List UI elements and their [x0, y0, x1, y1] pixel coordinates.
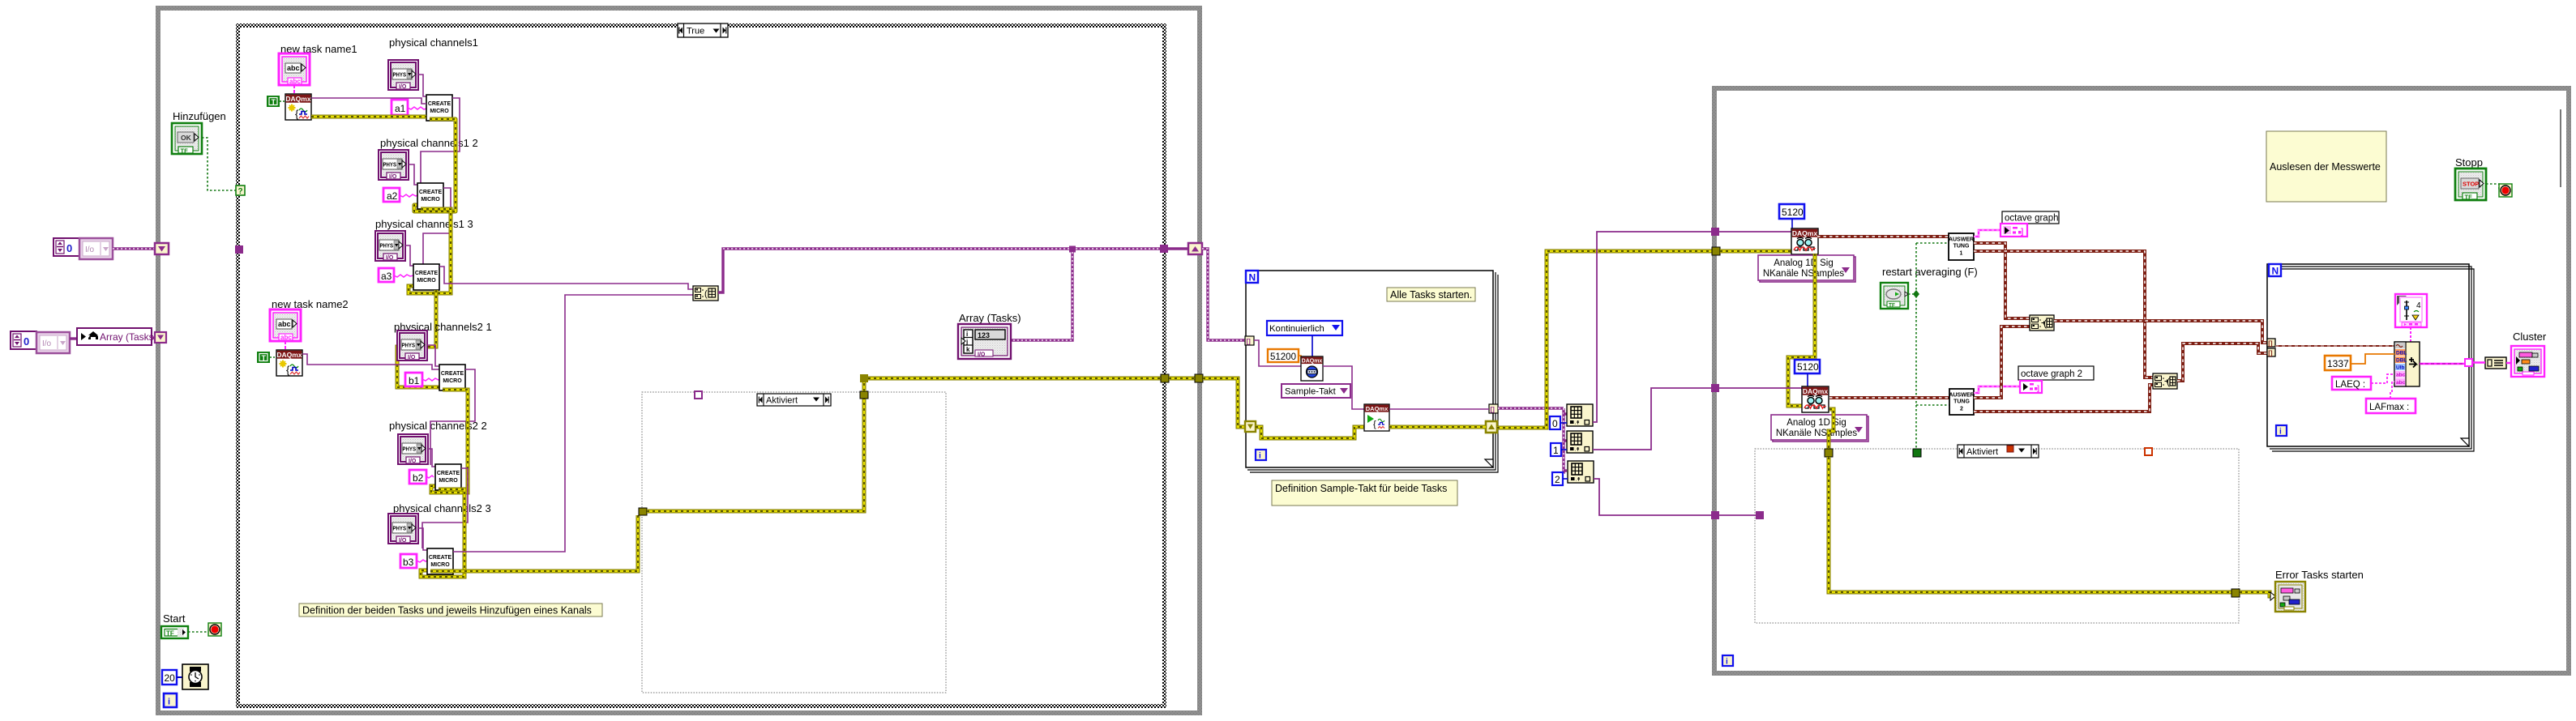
svg-text:physical channels1 3: physical channels1 3 [375, 218, 473, 230]
wire pink auswertung1 to octave graph [1974, 230, 2000, 237]
svg-text:i: i [2279, 428, 2282, 437]
wire task index array 3 to WL2 tunnel [1594, 479, 1712, 515]
wire task N1 tunnel to timing VI [1254, 340, 1303, 366]
wire waveform auswertung2 out2 to build array BA2 [1974, 385, 2153, 412]
numeric constant 51200 [1268, 349, 1299, 362]
string control new task name2 [270, 309, 301, 341]
create micro VI a3 [413, 264, 439, 290]
wire case tunnel to right shift register [1168, 247, 1189, 250]
svg-text:DBL: DBL [2396, 358, 2407, 364]
wire start VI error out to N1 SR right [1389, 425, 1486, 429]
svg-text:i: i [1259, 452, 1261, 461]
label Definition Sample-Takt [1272, 480, 1457, 506]
N1 tunnel task out [1489, 404, 1498, 413]
wire LAFmax to bundle [2390, 382, 2394, 399]
wire error b3 to disable structure tunnel [430, 515, 638, 571]
svg-text:{: { [1373, 420, 1376, 429]
error tunnel on left disable structure top border [860, 391, 868, 399]
svg-text:]: ] [2021, 228, 2023, 237]
PHYS I/O control b1 [397, 331, 427, 360]
window edge artifact line top right [2560, 109, 2561, 187]
N1 iteration terminal i [1256, 450, 1266, 461]
wire task1 to read1 [1719, 231, 1791, 233]
wire cluster bundle to N2 tunnel [2420, 363, 2466, 365]
wait (ms) timer [182, 664, 208, 689]
string constant LAFmax : [2366, 399, 2416, 413]
Error Tasks starten indicator [2275, 582, 2305, 612]
wire error to indicator Error Tasks starten [2240, 592, 2275, 596]
DAQmx timing VI [1301, 356, 1323, 381]
WL1 iteration terminal i [164, 693, 177, 707]
wire task N1 out to index arrays [1498, 407, 1564, 409]
DAQmx create task VI 2 [276, 350, 302, 376]
wire to Cluster indicator [2472, 361, 2511, 364]
svg-text:DBL: DBL [2396, 351, 2407, 356]
svg-text:51200: 51200 [1270, 352, 1296, 362]
DAQmx create task VI 1 [285, 94, 311, 120]
I/O combo control (lower left pair) [36, 332, 70, 353]
svg-text:0: 0 [1552, 418, 1558, 429]
svg-text:Array (Tasks): Array (Tasks) [959, 312, 1021, 324]
svg-text:a3: a3 [381, 271, 392, 282]
svg-text:k: k [966, 346, 970, 353]
svg-text:T: T [272, 98, 276, 106]
svg-text:5120: 5120 [1782, 207, 1804, 218]
svg-text:Analog 1D Sig: Analog 1D Sig [1774, 258, 1834, 268]
numeric constant 0 (index) [1550, 416, 1560, 429]
wire error a1 to a2 [414, 119, 456, 211]
error tunnel on left disable structure border [639, 508, 647, 515]
wire task3 inside WL2 to disable tunnel [1719, 514, 1756, 516]
numeric constant 0 (upper left pair) [53, 238, 79, 256]
svg-text:j: j [965, 339, 968, 346]
case tunnel purple right [1160, 245, 1168, 253]
label octave graph [2002, 211, 2059, 224]
string constant b1 [405, 373, 422, 386]
wire waveform auswertung1 out1 to build array BA1 [1974, 243, 2030, 318]
wire task index array 1 to WL2 tunnel [1593, 232, 1712, 422]
svg-text:physical channels2 3: physical channels2 3 [393, 502, 491, 514]
svg-text:Array (Tasks): Array (Tasks) [100, 331, 157, 343]
numeric constant 1337 [2325, 356, 2351, 370]
N2 auto-index tunnel 1 [2267, 339, 2275, 348]
wire b1 to create micro b1 [422, 378, 440, 381]
wire restart averaging boolean net [1908, 243, 1949, 450]
N2 iteration terminal i [2276, 425, 2287, 437]
wire task b3 to build array (up the spine) [453, 295, 693, 552]
create micro VI a2 [417, 183, 443, 209]
tunnel square on right disable border [2145, 448, 2152, 455]
case structure border (inside WL1) [238, 26, 1165, 706]
svg-text:[]: [] [2268, 350, 2273, 357]
build array BA1 [2030, 315, 2054, 331]
svg-text:TF: TF [1889, 303, 1895, 309]
svg-text:Definition der beiden Tasks un: Definition der beiden Tasks und jeweils … [302, 605, 592, 616]
wire timing VI to start VI [1323, 366, 1364, 409]
wire 5120 to read1 [1791, 219, 1793, 229]
WL2 tunnel task 3 [1711, 511, 1719, 519]
wire 5120 to read2 [1807, 373, 1808, 386]
wire error read1 to read2 [1788, 254, 1815, 406]
svg-text:b1: b1 [409, 375, 420, 386]
wire waveform read1 to auswertung1 [1817, 235, 1949, 238]
string constant a3 [379, 268, 394, 282]
svg-text:TUNG: TUNG [1953, 399, 1970, 405]
create micro VI a1 [426, 95, 452, 121]
svg-text:Alle Tasks starten.: Alle Tasks starten. [1390, 289, 1472, 301]
wire error inside disable structure [647, 399, 864, 511]
case selector label "True" [678, 23, 728, 37]
svg-text:Kontinuierlich: Kontinuierlich [1269, 324, 1324, 334]
label octave graph 2 [2018, 366, 2094, 380]
svg-text:TUNG: TUNG [1953, 244, 1970, 250]
wire PHYS a2 to create micro a2 [409, 164, 417, 185]
PHYS I/O control a2 [379, 150, 409, 180]
PHYS I/O control b3 [388, 514, 418, 544]
numeric constant 2 (index) [1552, 472, 1563, 485]
svg-text:Aktiviert: Aktiviert [766, 396, 798, 406]
wire error WL1 to N1 shift register [1203, 378, 1246, 427]
label Definition der beiden Tasks [299, 604, 602, 616]
WL1 conditional terminal (red LED) [208, 623, 221, 636]
svg-text:Hinzufügen: Hinzufügen [173, 110, 226, 122]
octave graph indicator [2000, 224, 2027, 237]
indexing tunnel glyph [2485, 357, 2506, 369]
svg-text:UIb: UIb [2396, 365, 2405, 371]
wire Stopp to WL2 conditional terminal [2486, 184, 2499, 190]
DAQmx read VI 2 [1802, 386, 1829, 412]
diagram disable structure (right, dotted) [1755, 449, 2239, 623]
wire task a3 to build array (long) [439, 267, 693, 289]
string constant b3 [400, 554, 417, 568]
index array node 1 [1567, 404, 1593, 426]
svg-text:2: 2 [1960, 407, 1963, 412]
svg-text:N: N [2272, 266, 2279, 277]
ring constant Analog 1D Sig (2) [1771, 415, 1868, 442]
disable selector "Aktiviert" (right) [1958, 445, 2039, 458]
svg-text:1: 1 [1553, 445, 1559, 456]
svg-text:4: 4 [2416, 301, 2421, 310]
svg-text:octave graph 2: octave graph 2 [2021, 369, 2082, 379]
while loop WL2 (right) border [1714, 88, 2569, 673]
svg-text:LAFmax :: LAFmax : [2369, 403, 2409, 412]
svg-text:Start: Start [163, 612, 186, 625]
Cluster indicator [2511, 346, 2544, 377]
boolean Start control [161, 626, 188, 638]
svg-text:20: 20 [165, 672, 176, 684]
svg-text:Sample-Takt: Sample-Takt [1285, 387, 1337, 397]
wire boolean OK to case selector terminal [202, 138, 236, 190]
local variable Array (Tasks) [77, 328, 157, 345]
wire error disable structure to case tunnel [864, 378, 1162, 391]
wire PHYS b1 to create micro b1 [427, 345, 439, 366]
wire 0 to index array 1 [1560, 422, 1567, 424]
numeric constant 5120 (read2) [1795, 360, 1820, 373]
svg-text:TF: TF [181, 147, 189, 155]
svg-text:I/O: I/O [978, 352, 986, 358]
numeric constant 20 [162, 670, 177, 685]
svg-text:Cluster: Cluster [2513, 331, 2547, 343]
svg-text:?: ? [238, 187, 243, 196]
wire string to DAQmx create task 2 [285, 341, 286, 350]
svg-text:2: 2 [1555, 474, 1560, 485]
input arrow Error Tasks starten [2270, 592, 2275, 600]
wire task from combo to WL1 left shift register [113, 247, 155, 250]
wire LAEQ to bundle [2371, 374, 2394, 383]
wire local variable to WL1 border terminal [152, 336, 156, 339]
WL1 border error tunnel [1195, 374, 1203, 382]
svg-text:Definition Sample-Takt für bei: Definition Sample-Takt für beide Tasks [1275, 483, 1447, 494]
wire a1 to create micro a1 [408, 107, 426, 109]
N2 count terminal [2269, 264, 2281, 277]
wire error read2 down into disable structure [1829, 409, 1834, 449]
string constant a2 [383, 188, 400, 202]
N1 shift register error right [1486, 421, 1497, 433]
svg-text:1: 1 [1960, 251, 1963, 257]
svg-text:abc: abc [2396, 380, 2406, 386]
auswertung VI 1 [1949, 233, 1974, 260]
green tunnel on right disable top border [1913, 449, 1921, 457]
svg-text:[]: [] [1247, 338, 1252, 345]
svg-text:Aktiviert: Aktiviert [1966, 447, 1998, 457]
string constant b2 [409, 470, 426, 484]
wire waveform auswertung1 out2 to build array BA2 [1974, 251, 2153, 378]
svg-text:a1: a1 [395, 103, 406, 114]
wire task b1 to b2 [430, 369, 475, 465]
error tunnel on right disable top border [1825, 449, 1833, 457]
wire task index array 2 to WL2 tunnel [1593, 388, 1712, 450]
svg-text:i: i [1726, 658, 1728, 667]
svg-text:AUSWER: AUSWER [1949, 237, 1974, 243]
wire task b2 to b3 [422, 468, 468, 548]
WL2 iteration terminal i [1722, 655, 1733, 667]
svg-text:DAQmx: DAQmx [1302, 359, 1323, 365]
wire a3 to create micro a3 [394, 275, 413, 277]
PHYS I/O control a3 [375, 231, 405, 261]
svg-text:[]: [] [2268, 340, 2273, 348]
N1 shift register error left [1245, 421, 1256, 432]
wire pink filter to bundle [2410, 327, 2411, 342]
PHYS I/O control b2 [398, 434, 428, 464]
error tunnel on right disable right border [2232, 589, 2240, 597]
svg-text:(: ( [704, 289, 708, 299]
for loop N2 (right) stacked frames [2267, 264, 2474, 451]
wire waveform BA1 to N2 tunnel 1 [2054, 321, 2267, 343]
while loop WL1 (left) border [158, 8, 1200, 713]
svg-text:Auslesen der Messwerte: Auslesen der Messwerte [2270, 161, 2381, 173]
svg-text:Stopp: Stopp [2455, 156, 2483, 169]
svg-text:i: i [966, 331, 968, 338]
junction on task array wire [1069, 246, 1076, 253]
wire 2 to index array 3 [1563, 478, 1568, 480]
wire T to create task 2 [270, 356, 276, 358]
wire error N1 SR to start VI [1256, 427, 1364, 438]
wire waveform auswertung2 out1 to build array BA1 [1974, 326, 2030, 398]
svg-text:i: i [168, 698, 170, 707]
wire task a1 to a2 [421, 98, 460, 184]
disable selector "Aktiviert" (left) [757, 394, 831, 406]
boolean control restart averaging [1881, 283, 1908, 309]
wire combo to local variable [70, 337, 77, 339]
label Auslesen der Messwerte (free label) [2266, 131, 2386, 202]
numeric constant 1 (index) [1551, 443, 1561, 456]
wire branch to Array (Tasks) indicator [1011, 252, 1072, 340]
svg-text:a2: a2 [387, 190, 398, 202]
wire error a2 to a3 [409, 209, 451, 293]
wire error N1 out up to WL2 [1497, 251, 1715, 428]
svg-text:1337: 1337 [2327, 358, 2349, 369]
wire string to DAQmx create task 1 [293, 85, 295, 94]
ring constant Sample-Takt [1282, 384, 1350, 398]
wire waveform inside N2 to bundle [2275, 345, 2394, 347]
wire waveform read2 to auswertung2 [1829, 396, 1949, 399]
svg-text:DAQmx: DAQmx [1366, 405, 1389, 412]
svg-text:physical channels1: physical channels1 [389, 36, 478, 49]
wire error a3 down to b1 [397, 290, 439, 387]
wire PHYS b2 to create micro b2 [428, 449, 435, 467]
I/O combo control (upper left pair) [79, 238, 113, 259]
diagram disable structure (left, dotted) [642, 392, 946, 693]
wire error create task1 to create micro a1 [311, 115, 426, 119]
index array node 2 [1567, 431, 1593, 453]
case tunnel error right [1161, 374, 1169, 382]
filter express VI icon (4) [2395, 294, 2427, 327]
numeric constant 5120 (read1) [1779, 204, 1804, 219]
N2 auto-index tunnel 2 [2267, 348, 2275, 357]
wire start VI task out to N1 tunnel [1389, 408, 1489, 410]
wire PHYS b3 to create micro b3 [418, 528, 427, 550]
shift register left terminal 2 (WL1) [155, 332, 166, 343]
N2 tunnel cluster out [2465, 359, 2472, 366]
case selector terminal ? [236, 186, 245, 196]
svg-text:123: 123 [978, 331, 990, 339]
string constant a1 [392, 100, 408, 115]
svg-text:Error Tasks starten: Error Tasks starten [2275, 569, 2364, 581]
string control new task name1 [279, 53, 310, 85]
PHYS I/O control a1 [388, 60, 418, 90]
wire pink auswertung2 to octave graph 2 [1974, 386, 2020, 393]
green diamond junction [1913, 290, 1919, 298]
svg-text:N: N [1249, 272, 1256, 284]
svg-text:NKanäle NSamples: NKanäle NSamples [1776, 429, 1858, 438]
svg-text:octave graph: octave graph [2005, 214, 2059, 224]
svg-text:b3: b3 [403, 557, 414, 568]
wire a2 to create micro a2 [400, 194, 417, 197]
boolean constant T (task1) [267, 96, 280, 107]
shift register left (WL1) [155, 243, 169, 254]
N1 auto-index tunnel (task in) [1245, 336, 1254, 345]
bundle by name node [2394, 342, 2420, 386]
wire waveform BA2 to N2 tunnel 2 [2177, 343, 2267, 381]
enum constant Kontinuierlich [1267, 321, 1342, 335]
wire 1337 to bundle [2351, 354, 2394, 364]
svg-text:NKanäle NSamples: NKanäle NSamples [1763, 269, 1845, 279]
svg-text:STOP: STOP [2463, 181, 2479, 188]
wire T to create task 1 [280, 100, 285, 102]
N1 count terminal [1246, 271, 1258, 284]
wire PHYS a3 to create micro a3 [405, 245, 413, 266]
WL2 tunnel task 1 [1711, 228, 1719, 236]
wire task2 to read2 [1719, 388, 1802, 390]
ring constant Analog 1D Sig (1) [1758, 255, 1855, 282]
create micro VI b1 [439, 365, 465, 390]
svg-text:LAEQ :: LAEQ : [2335, 380, 2365, 390]
wire task create task2 to create micro b1 [302, 354, 439, 369]
error junction square [860, 374, 868, 382]
label Alle Tasks starten. [1387, 288, 1475, 301]
build array BA2 [2153, 373, 2177, 389]
boolean OK button control (Hinzufuegen) [172, 123, 202, 155]
numeric constant 0 (lower left pair) [11, 331, 36, 349]
wire Start to conditional terminal [188, 631, 208, 633]
Array (Tasks) indicator [958, 324, 1011, 359]
DAQmx start task VI [1364, 404, 1389, 431]
DAQmx read VI 1 [1791, 228, 1818, 254]
wire PHYS a1 to create micro a1 [418, 75, 426, 96]
svg-text:TF: TF [166, 630, 174, 638]
svg-text:physical channels1 2: physical channels1 2 [380, 137, 478, 149]
svg-text:OK: OK [181, 134, 192, 142]
wire task a2 to a3 [423, 188, 451, 264]
svg-text:abc: abc [2396, 373, 2406, 378]
wire 1 to index array 2 [1561, 449, 1567, 450]
create micro VI b3 [427, 548, 453, 574]
svg-text:restart averaging (F): restart averaging (F) [1882, 266, 1978, 278]
svg-text:Analog 1D Sig: Analog 1D Sig [1787, 418, 1846, 428]
svg-text:5120: 5120 [1797, 361, 1819, 373]
auswertung VI 2 [1949, 389, 1974, 415]
wire 20 to wait timer [177, 676, 182, 678]
create micro VI b2 [435, 464, 461, 490]
string constant LAEQ : [2332, 377, 2371, 390]
wire error case to WL1 border [1169, 377, 1196, 381]
wire task create task1 to create micro a1 [311, 98, 426, 104]
case tunnel purple left [235, 245, 243, 254]
wire 51200 to timing VI [1299, 356, 1303, 360]
svg-text:AUSWER: AUSWER [1949, 393, 1974, 399]
wire task WL1 shift register to N1 tunnel [1202, 249, 1245, 340]
tunnel on right disable structure (task3) [1756, 511, 1764, 519]
for loop N1 (middle) stacked frames [1246, 271, 1498, 472]
octave graph 2 indicator [2020, 381, 2042, 393]
svg-text:T: T [262, 354, 267, 362]
svg-text:]: ] [2037, 384, 2039, 392]
WL2 tunnel task 2 [1711, 384, 1719, 392]
wire error inside disable structure to right tunnel [1829, 457, 2232, 592]
wire b2 to create micro b2 [426, 476, 434, 478]
WL2 tunnel error [1712, 247, 1720, 255]
svg-text:TF: TF [2465, 194, 2473, 201]
unused purple tunnel on left disable structure [695, 391, 702, 399]
svg-text:True: True [687, 27, 704, 36]
wire error b2 to b3 [421, 489, 464, 577]
svg-text:[]: [] [1491, 406, 1496, 413]
index array node 3 [1568, 461, 1594, 483]
wire error b1 to b2 [431, 390, 468, 493]
wire error to read1 [1720, 250, 1791, 254]
svg-text:b2: b2 [413, 472, 424, 484]
wire Kontinuierlich to timing VI [1312, 335, 1313, 356]
shift register right (WL1) [1188, 243, 1202, 254]
WL2 conditional terminal (red LED) [2499, 184, 2512, 197]
wire build array output to case tunnel [718, 249, 1161, 292]
build array (tasks) node [693, 286, 718, 301]
boolean Stopp control [2455, 169, 2486, 201]
wire b3 to create micro b3 [417, 560, 427, 562]
boolean constant T (task2) [257, 352, 270, 363]
